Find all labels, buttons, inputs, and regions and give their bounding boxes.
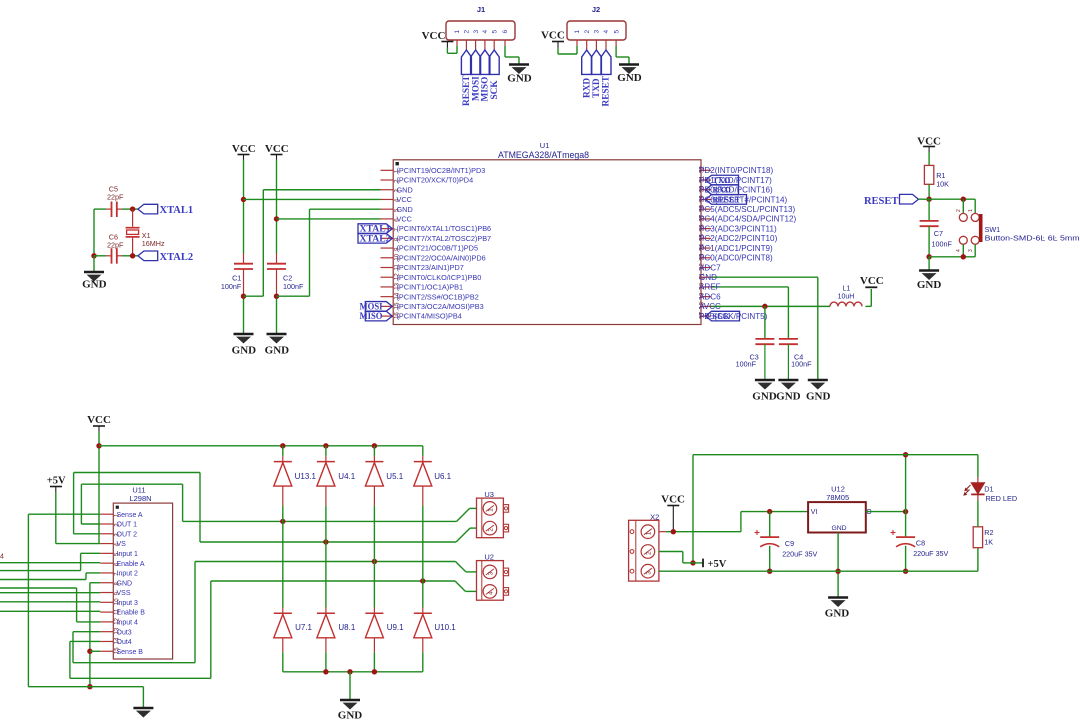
svg-text:SCK: SCK xyxy=(490,80,500,100)
svg-text:4: 4 xyxy=(603,30,610,34)
svg-text:L298N: L298N xyxy=(129,494,151,503)
svg-text:GND: GND xyxy=(752,391,777,403)
svg-text:100nF: 100nF xyxy=(932,240,953,249)
svg-text:16MHz: 16MHz xyxy=(142,239,165,248)
svg-text:RESET: RESET xyxy=(602,75,612,106)
svg-text:GND: GND xyxy=(507,73,532,85)
svg-text:OUT 2: OUT 2 xyxy=(117,531,138,538)
svg-text:PD0(RXD/PCINT16): PD0(RXD/PCINT16) xyxy=(699,186,773,195)
svg-text:D1: D1 xyxy=(984,485,993,494)
svg-text:MISO: MISO xyxy=(360,311,383,321)
svg-text:PC3(ADC3/PCINT11): PC3(ADC3/PCINT11) xyxy=(699,224,777,233)
svg-text:TXD: TXD xyxy=(592,78,602,98)
svg-text:VCC: VCC xyxy=(397,195,412,204)
svg-text:22pF: 22pF xyxy=(107,241,124,250)
svg-text:VCC: VCC xyxy=(265,143,289,155)
svg-text:Input 1: Input 1 xyxy=(117,551,139,558)
svg-text:U2: U2 xyxy=(484,553,494,562)
svg-text:3: 3 xyxy=(473,30,480,34)
svg-text:(PCINT21/OC0B/T1)PD5: (PCINT21/OC0B/T1)PD5 xyxy=(397,244,479,253)
svg-text:6: 6 xyxy=(502,30,509,34)
svg-text:10uH: 10uH xyxy=(838,294,855,301)
svg-text:Input 2: Input 2 xyxy=(117,571,139,578)
svg-text:VCC: VCC xyxy=(541,30,565,42)
svg-text:1: 1 xyxy=(968,209,974,212)
svg-text:GND: GND xyxy=(825,608,850,620)
svg-text:3: 3 xyxy=(968,249,974,252)
svg-text:PD1(TXD/PCINT17): PD1(TXD/PCINT17) xyxy=(699,176,772,185)
svg-text:VI: VI xyxy=(811,509,818,516)
svg-text:U5.1: U5.1 xyxy=(386,472,403,481)
svg-text:(PCINT6/XTAL1/TOSC1)PB6: (PCINT6/XTAL1/TOSC1)PB6 xyxy=(397,224,492,233)
svg-text:O: O xyxy=(866,509,872,516)
svg-text:(PCINT22/OC0A/AIN0)PD6: (PCINT22/OC0A/AIN0)PD6 xyxy=(397,253,486,262)
svg-text:C7: C7 xyxy=(934,229,943,238)
svg-text:L1: L1 xyxy=(843,286,851,293)
svg-text:GND: GND xyxy=(397,185,413,194)
svg-text:100nF: 100nF xyxy=(791,360,812,369)
svg-text:(PCINT0/CLKO/ICP1)PB0: (PCINT0/CLKO/ICP1)PB0 xyxy=(397,273,482,282)
svg-text:1: 1 xyxy=(454,30,461,34)
svg-text:RXD: RXD xyxy=(582,78,592,98)
svg-text:100nF: 100nF xyxy=(736,360,757,369)
svg-text:GND: GND xyxy=(82,279,107,291)
svg-text:U1: U1 xyxy=(540,141,550,150)
svg-text:Input 3: Input 3 xyxy=(117,600,139,607)
svg-text:VCC: VCC xyxy=(661,494,685,506)
svg-text:AREF: AREF xyxy=(699,283,721,292)
svg-text:C9: C9 xyxy=(785,539,794,548)
svg-text:Out3: Out3 xyxy=(117,629,132,636)
svg-text:U6.1: U6.1 xyxy=(434,472,451,481)
svg-text:U7.1: U7.1 xyxy=(295,623,312,632)
svg-text:2: 2 xyxy=(464,30,471,34)
svg-text:J1: J1 xyxy=(477,5,485,14)
svg-text:C8: C8 xyxy=(916,539,925,548)
svg-text:VCC: VCC xyxy=(397,215,412,224)
svg-text:100nF: 100nF xyxy=(221,282,242,291)
svg-text:VCC: VCC xyxy=(87,414,111,426)
svg-text:GND: GND xyxy=(397,205,413,214)
svg-text:5: 5 xyxy=(613,30,620,34)
svg-text:XTAL2: XTAL2 xyxy=(160,252,194,263)
svg-text:U13.1: U13.1 xyxy=(295,472,317,481)
svg-text:OUT 1: OUT 1 xyxy=(117,522,138,529)
svg-text:4: 4 xyxy=(488,591,495,595)
svg-text:GND: GND xyxy=(917,279,942,291)
svg-text:Button-SMD-6Ŀ 6Ŀ 5mm: Button-SMD-6Ŀ 6Ŀ 5mm xyxy=(985,234,1080,243)
svg-text:PC6(RESET#/PCINT14): PC6(RESET#/PCINT14) xyxy=(699,195,787,204)
svg-text:4: 4 xyxy=(482,30,489,34)
svg-text:PB5(SCK/PCINT5): PB5(SCK/PCINT5) xyxy=(699,312,768,321)
svg-text:GND: GND xyxy=(117,580,133,587)
svg-text:220uF 35V: 220uF 35V xyxy=(913,549,948,558)
svg-text:XTAL1: XTAL1 xyxy=(160,205,194,216)
svg-text:(PCINT7/XTAL2/TOSC2)PB7: (PCINT7/XTAL2/TOSC2)PB7 xyxy=(397,234,492,243)
svg-text:+5V: +5V xyxy=(708,559,727,570)
svg-text:(PCINT19/OC2B/INT1)PD3: (PCINT19/OC2B/INT1)PD3 xyxy=(397,166,486,175)
svg-text:PC0(ADC0/PCINT8): PC0(ADC0/PCINT8) xyxy=(699,254,773,263)
svg-text:XTAL1: XTAL1 xyxy=(360,224,392,234)
svg-text:Sense B: Sense B xyxy=(117,649,144,656)
svg-text:RED LED: RED LED xyxy=(986,494,1018,503)
svg-text:GND: GND xyxy=(232,345,257,357)
svg-text:(PCINT1/OC1A)PB1: (PCINT1/OC1A)PB1 xyxy=(397,283,464,292)
svg-text:VS: VS xyxy=(117,541,127,548)
svg-text:PC5(ADC5/SCL/PCINT13): PC5(ADC5/SCL/PCINT13) xyxy=(699,205,796,214)
svg-text:U3: U3 xyxy=(484,490,494,499)
svg-text:100nF: 100nF xyxy=(283,282,304,291)
svg-text:U10.1: U10.1 xyxy=(434,623,456,632)
svg-text:Enable B: Enable B xyxy=(117,610,146,617)
svg-text:Enable A: Enable A xyxy=(117,561,145,568)
svg-text:4: 4 xyxy=(956,249,962,252)
svg-text:Out4: Out4 xyxy=(117,639,132,646)
svg-text:GND: GND xyxy=(338,710,363,720)
svg-text:J2: J2 xyxy=(592,5,600,14)
svg-text:GND: GND xyxy=(806,391,831,403)
svg-text:+5V: +5V xyxy=(47,476,66,487)
svg-text:1: 1 xyxy=(488,508,495,512)
svg-text:3: 3 xyxy=(488,571,495,575)
svg-text:U9.1: U9.1 xyxy=(387,623,404,632)
svg-text:U4.1: U4.1 xyxy=(338,472,355,481)
svg-text:GND: GND xyxy=(699,273,717,282)
svg-text:GND: GND xyxy=(617,72,642,84)
svg-text:2: 2 xyxy=(646,551,653,555)
svg-text:1: 1 xyxy=(646,531,653,535)
svg-text:VCC: VCC xyxy=(232,143,256,155)
svg-text:5: 5 xyxy=(491,30,498,34)
svg-text:ATMEGA328/ATmega8: ATMEGA328/ATmega8 xyxy=(498,150,589,160)
svg-text:(PCINT2/SS#/OC1B)PB2: (PCINT2/SS#/OC1B)PB2 xyxy=(397,292,479,301)
svg-text:1: 1 xyxy=(574,30,581,34)
svg-text:PD2(INT0/PCINT18): PD2(INT0/PCINT18) xyxy=(699,166,774,175)
svg-text:22pF: 22pF xyxy=(107,193,124,202)
svg-text:(PCINT23/AIN1)PD7: (PCINT23/AIN1)PD7 xyxy=(397,263,464,272)
svg-text:2: 2 xyxy=(956,209,962,212)
svg-text:220uF 35V: 220uF 35V xyxy=(782,550,817,559)
svg-text:3: 3 xyxy=(646,571,653,575)
svg-text:Input 4: Input 4 xyxy=(117,619,139,626)
svg-text:X2: X2 xyxy=(650,513,659,522)
svg-text:GND: GND xyxy=(265,345,290,357)
svg-text:RESET: RESET xyxy=(864,196,898,207)
svg-text:10K: 10K xyxy=(936,180,949,189)
svg-text:2: 2 xyxy=(488,528,495,532)
svg-text:AVCC: AVCC xyxy=(699,302,721,311)
svg-text:R2: R2 xyxy=(984,528,993,537)
svg-text:ADC7: ADC7 xyxy=(699,263,721,272)
svg-text:(PCINT4/MISO)PB4: (PCINT4/MISO)PB4 xyxy=(397,312,462,321)
svg-text:2: 2 xyxy=(584,30,591,34)
svg-text:1K: 1K xyxy=(984,538,993,547)
svg-text:Sense A: Sense A xyxy=(117,512,143,519)
svg-text:VCC: VCC xyxy=(860,275,884,287)
svg-text:VSS: VSS xyxy=(117,590,131,597)
svg-text:(PCINT20/XCK/T0)PD4: (PCINT20/XCK/T0)PD4 xyxy=(397,176,474,185)
svg-text:U8.1: U8.1 xyxy=(338,623,355,632)
svg-text:PC1(ADC1/PCINT9): PC1(ADC1/PCINT9) xyxy=(699,244,773,253)
svg-text:(PCINT3/OC2A/MOSI)PB3: (PCINT3/OC2A/MOSI)PB3 xyxy=(397,302,484,311)
svg-text:VCC: VCC xyxy=(422,30,446,42)
svg-text:GND: GND xyxy=(776,391,801,403)
svg-text:PC4(ADC4/SDA/PCINT12): PC4(ADC4/SDA/PCINT12) xyxy=(699,215,796,224)
svg-text:4: 4 xyxy=(0,554,4,561)
svg-text:3: 3 xyxy=(594,30,601,34)
svg-text:ADC6: ADC6 xyxy=(699,292,721,301)
svg-text:PC2(ADC2/PCINT10): PC2(ADC2/PCINT10) xyxy=(699,234,778,243)
svg-text:GND: GND xyxy=(831,525,846,532)
svg-text:MOSI: MOSI xyxy=(360,301,383,311)
svg-text:XTAL2: XTAL2 xyxy=(360,233,392,243)
svg-text:78M05: 78M05 xyxy=(826,493,849,502)
